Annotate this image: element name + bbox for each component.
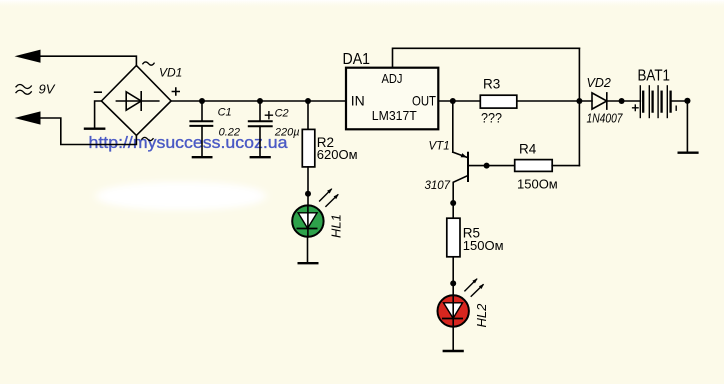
LED HL1 emission arrows (320, 188, 339, 206)
node junction VD2-BAT1 (619, 98, 625, 104)
svg-text:ADJ: ADJ (382, 72, 403, 86)
svg-text:VD1: VD1 (159, 66, 182, 80)
wire: battery to ground (672, 101, 688, 152)
battery BAT1 (640, 86, 670, 118)
svg-text:http://mysuccess.ucoz.ua: http://mysuccess.ucoz.ua (89, 134, 289, 152)
capacitor C2 polarized (249, 121, 272, 126)
svg-text:VD2: VD2 (587, 76, 611, 90)
svg-text:C1: C1 (218, 106, 232, 118)
svg-text:R3: R3 (483, 76, 500, 91)
svg-text:150Ом: 150Ом (463, 238, 504, 253)
ground (C2) (251, 156, 270, 158)
node junction R2-HL1 (305, 191, 311, 197)
svg-text:???: ??? (481, 109, 502, 125)
wire: R2 top lead (307, 101, 309, 129)
ground (bridge negative) (85, 127, 104, 129)
LED HL2 red (438, 295, 469, 327)
node junction VT1 base (484, 163, 490, 169)
label minus tick at battery (675, 106, 677, 110)
AC input arrow top (15, 50, 41, 63)
wire: C1 bottom lead (201, 126, 203, 157)
svg-text:VT1: VT1 (429, 140, 450, 152)
resistor R4 (515, 160, 553, 172)
svg-text:R4: R4 (519, 142, 537, 157)
svg-text:620Ом: 620Ом (317, 147, 358, 162)
transistor VT1 PNP (453, 152, 515, 203)
svg-text:OUT: OUT (412, 92, 436, 108)
svg-text:HL1: HL1 (328, 214, 343, 238)
diode VD2 (592, 93, 607, 109)
wire: vertical feedback ADJ/R4 node (578, 48, 580, 165)
resistor R2 (302, 129, 315, 167)
wire: bridge negative to ground (95, 101, 102, 129)
svg-text:1N4007: 1N4007 (587, 112, 624, 126)
resistor R5 (447, 218, 460, 257)
wire: C1 top lead (201, 101, 203, 121)
node junction ADJ net (576, 98, 582, 104)
wire: top AC arrow to bridge top vertex (38, 56, 136, 66)
svg-text:IN: IN (351, 92, 365, 108)
wire: bottom AC arrow to bridge bottom vertex (38, 118, 136, 145)
wire: HL2 to ground (452, 327, 454, 351)
white eraser blob (95, 183, 267, 210)
LED HL1 green (292, 205, 323, 237)
bridge rectifier VD1 diamond (101, 66, 171, 136)
node junction OUT (450, 98, 456, 104)
wire: R5 to HL2 (452, 257, 454, 296)
node junction R5-HL2 (450, 280, 456, 286)
wire: OUT node down to VT1 emitter (452, 101, 454, 152)
VD1 inner diode (116, 92, 158, 110)
label + C2 (265, 107, 288, 119)
wire: ADJ pin up and over to R3 node (393, 48, 580, 67)
wire: C2 top lead (259, 101, 261, 121)
wire: R4 to ADJ net (552, 165, 579, 167)
svg-text:220µ: 220µ (274, 127, 300, 139)
wire: main positive rail bridge to DA1 IN (171, 100, 346, 102)
wire: VD2 cathode to battery (607, 100, 641, 102)
node junction VT1 collector (450, 200, 456, 206)
label + at battery (633, 105, 638, 110)
ground (HL2) (444, 350, 463, 352)
svg-text:BAT1: BAT1 (638, 68, 671, 85)
node junction C1 (199, 98, 205, 104)
label ~ approx sign (AC) (16, 84, 31, 94)
svg-text:150Ом: 150Ом (517, 176, 558, 191)
LED HL2 emission arrows (465, 278, 484, 296)
node junction R2 (305, 98, 311, 104)
wire: C2 bottom lead (259, 126, 261, 157)
svg-text:DA1: DA1 (343, 51, 371, 68)
wire: collector to R5 (452, 203, 454, 218)
label plus at bridge right (172, 88, 179, 95)
node junction C2 (257, 98, 263, 104)
ground (BAT1) (679, 151, 698, 153)
op-amp regulator DA1 LM317T box (346, 68, 438, 130)
capacitor C1 (190, 121, 212, 126)
wire: DA1 OUT to R3 (438, 100, 480, 102)
wire: HL1 to ground (307, 237, 309, 263)
node junction BAT1 right (684, 98, 690, 104)
label minus at bridge left (95, 91, 102, 93)
svg-text:C2: C2 (275, 107, 289, 119)
resistor R3 (480, 95, 517, 108)
svg-text:HL2: HL2 (474, 303, 489, 328)
ground (C1) (193, 156, 211, 158)
ground (HL1) (299, 262, 318, 264)
svg-text:0.22: 0.22 (219, 126, 240, 138)
wire: R2 to HL1 (307, 167, 309, 206)
svg-text:3107: 3107 (425, 180, 451, 192)
top white band (0, 0, 724, 9)
label ~ at bridge top (143, 62, 154, 65)
label ~ at bridge bottom (142, 137, 153, 140)
svg-text:9V: 9V (39, 81, 56, 96)
AC input arrow bottom (15, 111, 41, 124)
svg-text:LM317T: LM317T (372, 108, 417, 123)
wire: R3 to VD2 anode (517, 100, 592, 102)
